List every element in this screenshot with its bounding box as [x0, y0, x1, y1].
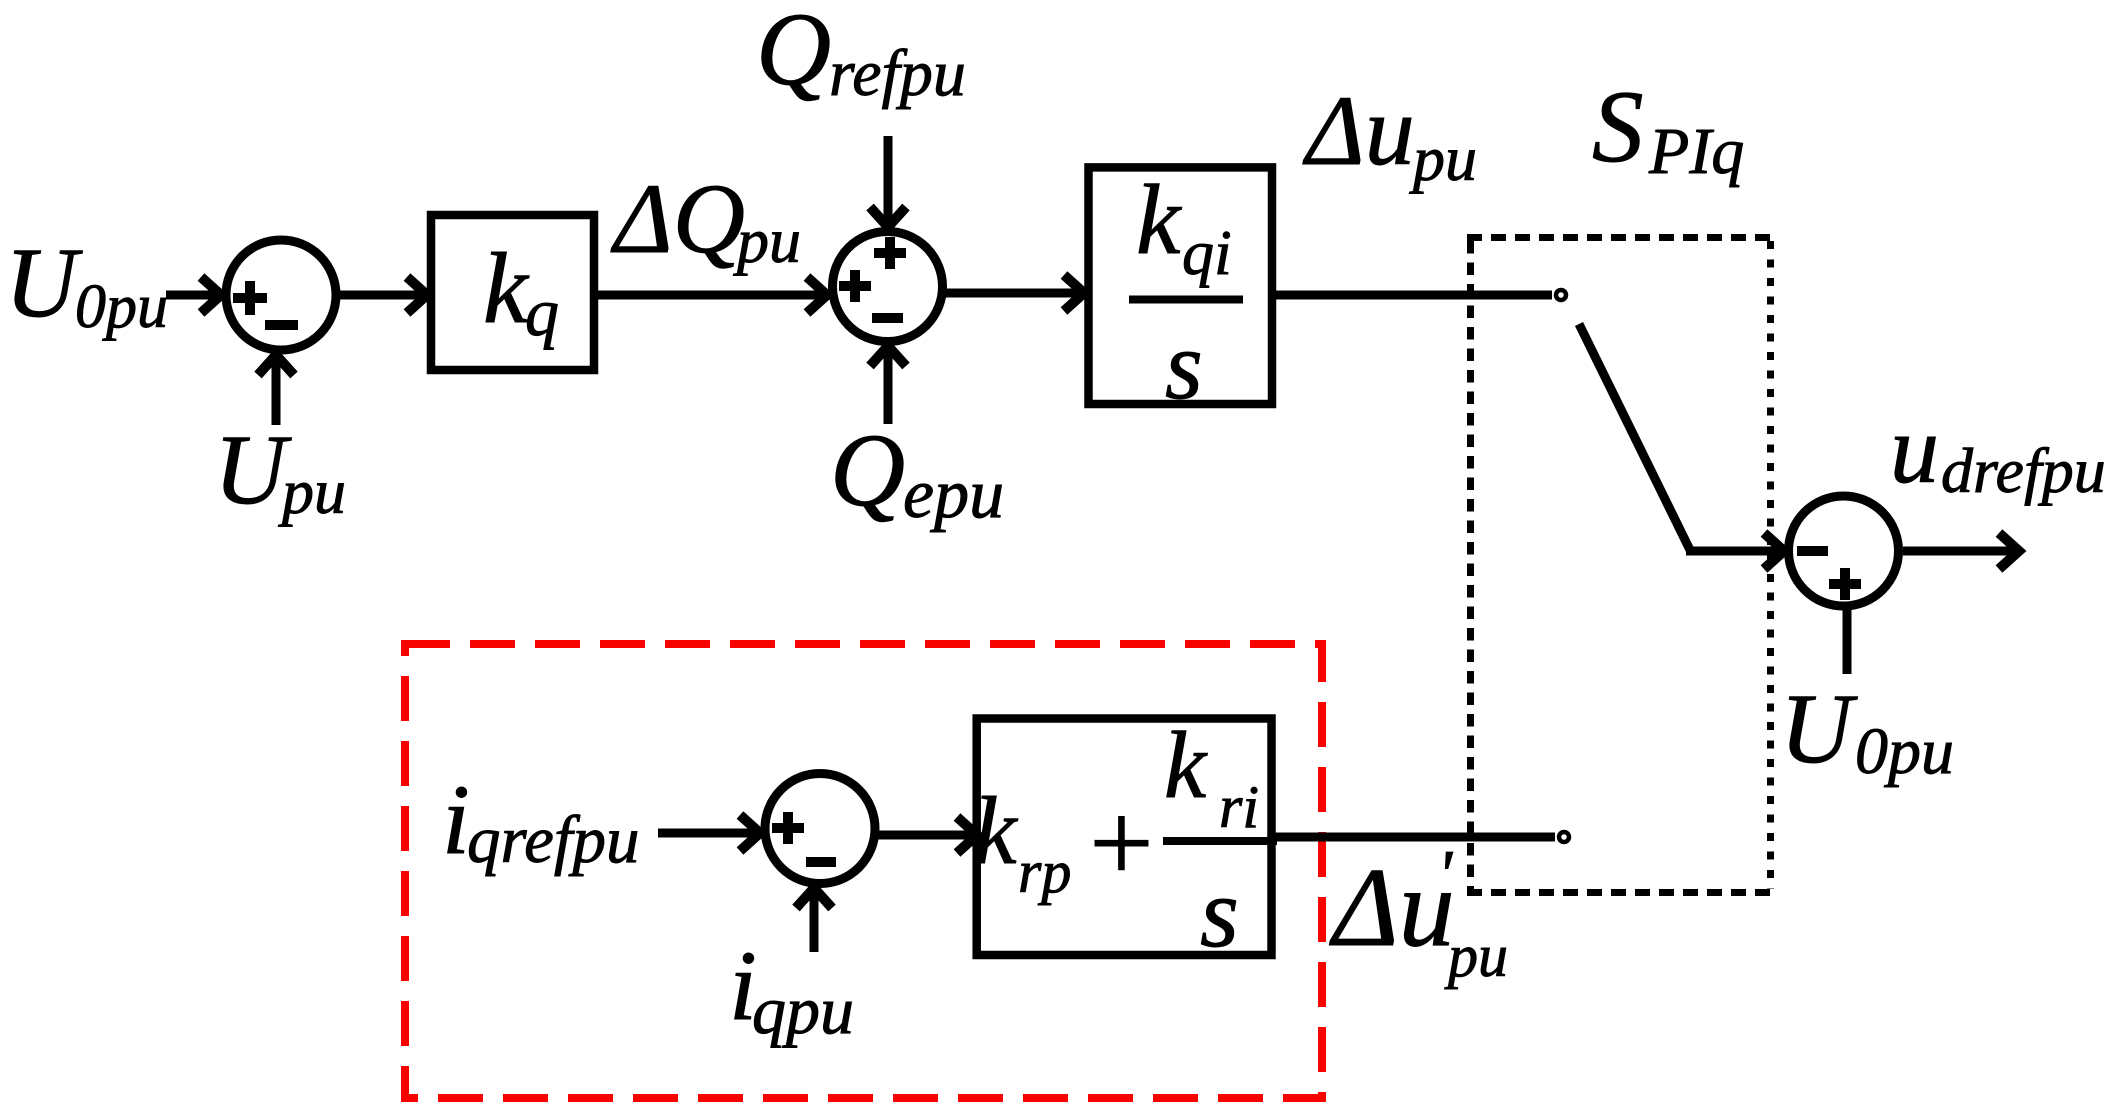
- svg-text:pu: pu: [1444, 923, 1508, 989]
- svg-text:drefpu: drefpu: [1941, 435, 2106, 506]
- svg-text:i: i: [442, 764, 470, 875]
- svg-text:pu: pu: [278, 456, 346, 527]
- switch arm into S3: [1686, 547, 1784, 556]
- S2 minus bottom: [872, 313, 903, 323]
- svg-text:s: s: [1165, 312, 1203, 419]
- svg-text:+: +: [1082, 779, 1159, 906]
- svg-text:qrefpu: qrefpu: [467, 803, 639, 877]
- wire S2 to integrator box: [943, 289, 1084, 298]
- svg-text:refpu: refpu: [829, 37, 966, 110]
- svg-text:S: S: [1592, 70, 1644, 184]
- S4 minus: [806, 857, 836, 867]
- wire kq to S2: [598, 291, 827, 300]
- S1 plus sign: [233, 281, 267, 315]
- S1 minus sign: [265, 320, 298, 330]
- wire S1 to kq box: [336, 291, 427, 300]
- wire S4 to PI box: [875, 831, 977, 840]
- svg-text:q: q: [525, 274, 559, 350]
- output arrow udrefpu: [1903, 547, 2019, 556]
- svg-text:qi: qi: [1182, 217, 1232, 288]
- summing junction S4: [765, 774, 875, 884]
- gain block kq: [431, 215, 594, 370]
- wire iqrefpu into S4: [658, 829, 760, 838]
- svg-text:U: U: [1780, 673, 1858, 784]
- svg-text:U: U: [214, 414, 292, 525]
- svg-text:ri: ri: [1219, 774, 1259, 840]
- svg-text:0pu: 0pu: [75, 273, 168, 341]
- S3 plus: [1829, 568, 1861, 600]
- svg-text:U: U: [5, 227, 83, 338]
- svg-text:epu: epu: [903, 456, 1004, 533]
- svg-text:k: k: [1136, 164, 1182, 275]
- svg-text:pu: pu: [1409, 123, 1477, 194]
- wire Qrefpu down into S2: [884, 136, 893, 227]
- svg-text:u: u: [1890, 396, 1939, 504]
- wire PI box to switch node bottom: [1274, 833, 1555, 842]
- switch node top: [1556, 290, 1566, 300]
- svg-text:': ': [1437, 837, 1453, 914]
- svg-text:Q: Q: [830, 413, 905, 528]
- svg-text:pu: pu: [733, 205, 801, 276]
- switch dotted box: [1467, 234, 1774, 241]
- switch node bottom: [1559, 832, 1569, 842]
- PI block krp + kri/s: [977, 719, 1272, 956]
- integrator block kqi/s: [1089, 167, 1273, 404]
- summing junction S1: [226, 240, 336, 350]
- svg-text:k: k: [1164, 712, 1208, 818]
- wire integrator to switch node: [1273, 291, 1552, 300]
- svg-text:rp: rp: [1018, 839, 1071, 905]
- svg-text:s: s: [1200, 857, 1239, 968]
- svg-text:Δu: Δu: [1302, 75, 1415, 186]
- wire U0pu up into S3: [1843, 608, 1852, 674]
- svg-text:ΔQ: ΔQ: [610, 163, 745, 274]
- svg-text:0pu: 0pu: [1855, 715, 1954, 788]
- summing junction S2: [833, 232, 943, 342]
- svg-text:Q: Q: [756, 0, 831, 107]
- summing junction S3 output: [1789, 496, 1899, 606]
- wire iqpu up into S4: [810, 888, 819, 952]
- switch arm diagonal: [1579, 324, 1690, 550]
- svg-text:qpu: qpu: [752, 972, 854, 1048]
- S3 minus: [1797, 546, 1828, 556]
- svg-text:PIq: PIq: [1648, 115, 1744, 188]
- wire Upu up into S1: [272, 355, 281, 425]
- S2 plus left: [839, 270, 871, 302]
- S2 plus top: [874, 237, 906, 269]
- svg-text:k: k: [483, 232, 530, 344]
- svg-text:k: k: [974, 777, 1019, 884]
- red dashed virtual-resistor box: [405, 644, 1322, 1098]
- S4 plus: [772, 812, 804, 844]
- wire Qepu up into S2: [884, 346, 893, 424]
- svg-text:Δu: Δu: [1329, 846, 1455, 970]
- wire into summing junction S1: [166, 291, 221, 300]
